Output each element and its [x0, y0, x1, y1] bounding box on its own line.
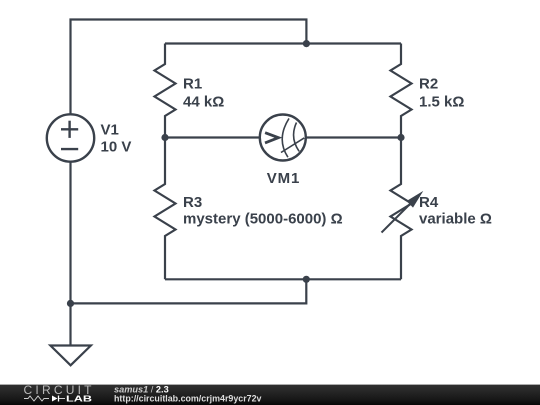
resistor R1	[155, 44, 176, 138]
svg-text:10 V: 10 V	[101, 139, 132, 156]
voltage source V1	[47, 114, 94, 161]
node bottom junction	[303, 276, 310, 283]
voltmeter VM1	[260, 115, 306, 161]
svg-text:VM1: VM1	[267, 170, 300, 187]
node top junction	[303, 40, 310, 47]
node ground junction	[67, 300, 74, 307]
wire bottom rail of bridge	[165, 278, 401, 280]
resistor R2	[391, 44, 412, 138]
logo CircuitLab wordmark	[24, 383, 93, 404]
footer bar	[0, 385, 540, 405]
wire middle right rail	[306, 136, 401, 138]
svg-text:R2: R2	[419, 76, 438, 93]
svg-text:1.5 kΩ: 1.5 kΩ	[419, 94, 464, 111]
resistor R3	[155, 138, 176, 280]
svg-text:V1: V1	[101, 122, 119, 139]
wire from V1 bottom to ground node	[69, 162, 71, 304]
wire top rail of bridge	[165, 42, 401, 44]
svg-text:R1: R1	[183, 76, 202, 93]
node right middle junction	[397, 134, 404, 141]
svg-text:LAB: LAB	[66, 394, 92, 404]
svg-text:variable Ω: variable Ω	[419, 211, 492, 228]
svg-text:44 kΩ: 44 kΩ	[183, 94, 224, 111]
wire middle left rail	[165, 136, 260, 138]
node left middle junction	[161, 134, 168, 141]
ground	[50, 346, 91, 366]
svg-text:R4: R4	[419, 194, 439, 211]
wire from bottom rail to ground rail	[71, 279, 307, 303]
svg-text:mystery (5000-6000) Ω: mystery (5000-6000) Ω	[183, 211, 343, 228]
wire ground lead	[69, 303, 71, 345]
svg-text:http://circuitlab.com/crjm4r9y: http://circuitlab.com/crjm4r9ycr72v	[114, 393, 262, 403]
resistor R4 variable	[382, 138, 424, 280]
svg-text:R3: R3	[183, 194, 202, 211]
wire from V1 top to bridge top node	[71, 20, 307, 116]
